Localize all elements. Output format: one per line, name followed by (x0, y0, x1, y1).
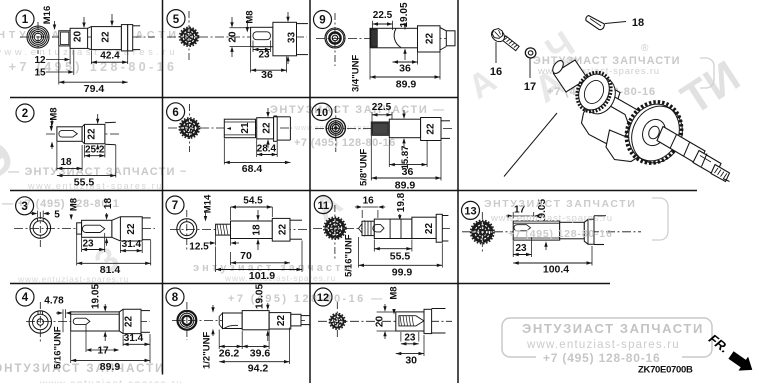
cell 6 circled number 6 (167, 103, 185, 121)
cell 7 shaft side view (216, 224, 231, 235)
svg-text:94.2: 94.2 (248, 363, 269, 375)
svg-text:ЭНТУЗИАСТ ЗАПЧАСТИ: ЭНТУЗИАСТ ЗАПЧАСТИ (0, 363, 165, 375)
svg-text:19.05: 19.05 (91, 284, 102, 309)
cell 8 dim 26.2 (218, 330, 220, 350)
cell 11 centerline (313, 227, 450, 229)
cell 3 dim 31.4 (119, 242, 121, 253)
cell 7 dim 54.5 (230, 207, 232, 220)
cell 1 dim 12 (69, 47, 71, 65)
cell 11 end view (splined dark) (325, 218, 346, 239)
cell 5 centerline (167, 36, 307, 38)
svg-text:16: 16 (490, 66, 502, 78)
cell 5 dim 20 (230, 27, 251, 29)
svg-text:26.2: 26.2 (219, 348, 240, 360)
grid horizontal line y=283.5 (10, 283, 610, 285)
cell 12 centerline (318, 320, 452, 322)
svg-text:3/4"UNF: 3/4"UNF (351, 55, 362, 92)
svg-text:www.entuziast-spares.ru: www.entuziast-spares.ru (224, 273, 336, 283)
svg-text:79.4: 79.4 (84, 83, 105, 95)
svg-text:12: 12 (317, 292, 329, 304)
cell 8 circled number 8 (166, 288, 184, 306)
cell 2 dim 25.2 (84, 145, 86, 158)
cell 7 dim 70 (230, 252, 232, 265)
cell 8 shaft side view (219, 313, 222, 329)
cell 9 dim 89.9 (369, 48, 371, 79)
svg-text:ЭНТУЗИАСТ ЗАПЧАСТИ: ЭНТУЗИАСТ ЗАПЧАСТИ (484, 198, 636, 210)
svg-text:5/16"UNF: 5/16"UNF (53, 326, 64, 369)
svg-text:22: 22 (126, 223, 137, 235)
cell 11 dim 16 (361, 210, 363, 218)
svg-text:99.9: 99.9 (392, 266, 413, 278)
cell 13 shaft side view (513, 221, 560, 240)
svg-text:28.4: 28.4 (257, 143, 277, 154)
cell 10 circled number 10 (312, 103, 332, 120)
svg-text:23: 23 (515, 243, 527, 254)
cell 1 circled number 1 (16, 10, 34, 28)
svg-text:®: ® (641, 43, 649, 54)
cell 11 shaft side view (359, 221, 365, 235)
svg-text:19.8: 19.8 (396, 192, 407, 212)
cell 11 dim 55.5 (373, 240, 375, 252)
cell 8 dim 94.2 (289, 328, 291, 365)
grid vertical line x=310 (309, 0, 311, 383)
grid vertical line x=458 (457, 0, 459, 383)
cell 4 centerline (26, 321, 150, 323)
svg-text:23: 23 (82, 238, 94, 249)
cell 12 dim 30 (423, 335, 425, 356)
cell 12 shaft side view (396, 312, 424, 331)
svg-text:www.entuziast-spares.ru: www.entuziast-spares.ru (27, 181, 163, 191)
cell 5 dim 36 (250, 48, 252, 73)
svg-text:1/2"UNF: 1/2"UNF (202, 332, 213, 369)
cell 4 dim 89.9 (70, 332, 72, 364)
cell 4 dim 17 (85, 325, 87, 353)
svg-text:22: 22 (101, 31, 112, 43)
cell 8 dim thread arrows (212, 305, 214, 311)
svg-text:+7 (495) 128-80-16: +7 (495) 128-80-16 (543, 351, 660, 365)
cell 13 dim 23 (512, 241, 514, 257)
crankshaft threaded tip hatch (715, 168, 718, 173)
svg-text:4.78: 4.78 (44, 296, 64, 307)
svg-text:81.4: 81.4 (100, 264, 121, 276)
cell 3 dim 5 (keyway width) (36, 211, 38, 217)
cell 7 dim 101.9 (215, 247, 217, 273)
cell 6 dim 68.4 (223, 139, 225, 165)
svg-text:9: 9 (319, 15, 325, 27)
cell 9 dim 22.5 (372, 21, 374, 30)
svg-text:15: 15 (34, 68, 46, 79)
cell 4 dim 31.4 (122, 335, 124, 346)
cell 13 centerline (462, 231, 641, 233)
cell 10 dim 89.9 (370, 136, 372, 181)
cell 8 end view (threaded dark) (178, 311, 197, 330)
crankshaft leader line (504, 113, 557, 177)
svg-text:ЭНТУЗИАСТ ЗАПЧАСТИ —: ЭНТУЗИАСТ ЗАПЧАСТИ — (270, 104, 446, 116)
cell 10 dim 22.5 (371, 112, 373, 123)
crankshaft 3d drawing (551, 59, 730, 182)
svg-text:25.2: 25.2 (85, 145, 105, 156)
svg-text:www.entuziast-spares.ru: www.entuziast-spares.ru (39, 379, 183, 383)
cell 1 dim 15 (73, 50, 75, 75)
svg-text:22.5: 22.5 (372, 102, 392, 113)
svg-text:22: 22 (124, 316, 135, 328)
svg-text:22: 22 (276, 315, 287, 327)
svg-text:7: 7 (172, 200, 178, 212)
svg-text:89.9: 89.9 (396, 79, 417, 91)
svg-text:M8: M8 (68, 198, 79, 211)
svg-text:M8: M8 (244, 10, 255, 23)
svg-text:M8: M8 (389, 286, 400, 299)
svg-text:22: 22 (261, 122, 272, 134)
svg-text:M16: M16 (42, 6, 53, 24)
part 16 leader and label (495, 42, 497, 63)
cell 3 end view (keyed bore) (30, 218, 51, 239)
svg-text:M8: M8 (48, 107, 59, 120)
cell 3 dim 81.4 (76, 235, 78, 266)
svg-text:89.9: 89.9 (395, 179, 416, 191)
svg-text:6: 6 (172, 107, 178, 119)
cell 1 centerline (20, 36, 155, 38)
cell 12 dim 20 (377, 311, 396, 313)
cell 1 shaft side view (59, 31, 70, 46)
svg-text:101.9: 101.9 (249, 270, 275, 282)
grid horizontal line y=97.5 (10, 97, 458, 99)
grid vertical line x=162.5 (162, 0, 164, 375)
svg-text:ZK70E0700B: ZK70E0700B (638, 365, 693, 376)
cell 2 centerline (46, 133, 120, 135)
svg-text:89.9: 89.9 (100, 361, 121, 373)
svg-text:8: 8 (172, 292, 179, 304)
cell 9 centerline (316, 37, 455, 39)
svg-text:68.4: 68.4 (242, 163, 263, 175)
svg-text:5: 5 (173, 14, 180, 26)
svg-text:36: 36 (399, 63, 411, 75)
part 17 leader and label (529, 58, 531, 78)
cell 4 circled number 4 (16, 288, 34, 306)
cell 12 end view (small splined) (330, 314, 344, 328)
cell 3 centerline (14, 228, 155, 230)
cell 11 dim 99.9 (358, 237, 360, 268)
cell 3 dim 23 (81, 238, 83, 252)
svg-text:+7 (495) 128-80-16: +7 (495) 128-80-16 (508, 228, 613, 240)
svg-text:12: 12 (34, 55, 46, 66)
svg-text:2: 2 (22, 108, 28, 120)
svg-text:22.5: 22.5 (373, 10, 393, 21)
cell 13 dim 100.4 (591, 246, 593, 266)
cell 11 circled number 11 (314, 196, 332, 214)
svg-text:100.4: 100.4 (543, 264, 569, 276)
cell 13 dim 17 (512, 212, 514, 219)
svg-text:www.entuziast-spares.ru: www.entuziast-spares.ru (526, 339, 680, 351)
FR arrow (728, 351, 752, 370)
cell 3 circled number 3 (16, 197, 34, 215)
svg-text:20: 20 (73, 31, 84, 43)
cell 1 dim 79.4 (58, 47, 60, 85)
svg-text:21: 21 (240, 122, 251, 134)
svg-text:30: 30 (405, 355, 417, 367)
svg-text:70: 70 (240, 250, 252, 262)
svg-text:16: 16 (363, 196, 375, 207)
svg-text:33: 33 (287, 32, 298, 44)
part 18 woodruff key (586, 16, 605, 30)
svg-text:www.entuziast-spares.ru: www.entuziast-spares.ru (490, 213, 613, 224)
cell 6 shaft side view (224, 119, 255, 138)
cell 5 shaft side view (251, 27, 273, 46)
svg-text:11: 11 (317, 200, 329, 212)
svg-text:17: 17 (524, 81, 536, 93)
svg-text:42.4: 42.4 (100, 50, 120, 61)
cell 2 dim M8 arrows (51, 118, 53, 125)
cell 5 circled number 5 (167, 10, 185, 28)
svg-text:55.5: 55.5 (74, 176, 95, 188)
cell 10 shaft side view (371, 122, 389, 135)
svg-text:22: 22 (424, 223, 435, 235)
svg-text:22: 22 (426, 123, 437, 135)
cell 10 dim 36 (388, 139, 390, 168)
part 17 washer (524, 46, 537, 59)
cell 4 shaft side view (71, 312, 120, 331)
cell 6 dim 28.4 (256, 140, 258, 158)
part 18 leader and label (605, 22, 626, 24)
cell 1 end view (threaded M16) (27, 26, 49, 48)
cell 2 circled number 2 (16, 104, 34, 122)
svg-text:5/8"UNF: 5/8"UNF (358, 149, 369, 186)
svg-text:54.5: 54.5 (243, 196, 263, 207)
svg-text:36: 36 (402, 166, 414, 178)
cell 6 end view (splined) (180, 119, 199, 138)
svg-text:ЭНТУЗИАСТ ЗАПЧАСТИ: ЭНТУЗИАСТ ЗАПЧАСТИ (522, 321, 704, 336)
cell 13 circled number 13 (462, 201, 480, 219)
svg-text:4: 4 (22, 292, 29, 304)
svg-text:39.6: 39.6 (250, 348, 271, 360)
cell 4 end view (keyed) (29, 311, 51, 333)
svg-text:20: 20 (375, 316, 386, 328)
svg-text:13: 13 (464, 206, 476, 218)
cell 9 shaft side view (370, 28, 418, 48)
svg-text:31.4: 31.4 (124, 333, 144, 344)
part 16 flange bolt (489, 27, 519, 51)
cell 7 circled number 7 (166, 196, 184, 214)
cell 6 centerline (168, 127, 292, 129)
cell 8 centerline (172, 320, 305, 322)
svg-text:22: 22 (278, 224, 289, 236)
svg-text:M14: M14 (202, 194, 213, 213)
watermark box bottom right (502, 318, 712, 357)
cell 2 dim 18 (56, 142, 58, 171)
cell 9 end view (threaded) (325, 28, 345, 48)
crankshaft center hole mark (700, 156, 711, 163)
cell 7 centerline (170, 229, 307, 231)
cell 12 dim 23 (400, 332, 402, 342)
svg-text:55.5: 55.5 (390, 250, 411, 262)
svg-text:31.4: 31.4 (122, 239, 142, 250)
crankshaft tip end face (723, 179, 730, 182)
svg-text:23: 23 (404, 333, 416, 344)
svg-text:— ЭНТУЗИАСТ ЗАПЧАСТИ ~: — ЭНТУЗИАСТ ЗАПЧАСТИ ~ (8, 166, 187, 178)
cell 1 dim 42.4 (90, 51, 92, 65)
svg-text:10: 10 (316, 107, 328, 119)
cell 9 dim 36 (417, 53, 419, 65)
svg-text:1: 1 (22, 14, 29, 26)
cell 7 end view (plain) (177, 219, 197, 239)
cell 12 circled number 12 (314, 288, 332, 306)
cell 10 centerline (315, 127, 452, 129)
svg-text:36: 36 (261, 69, 273, 81)
cell 13 end view (splined dark) (471, 221, 493, 243)
cell 3 shaft side view (77, 223, 82, 234)
svg-text:5/16"UNF: 5/16"UNF (344, 234, 355, 277)
cell 9 circled number 9 (314, 11, 332, 29)
cell 5 end view (splined) (180, 28, 198, 46)
svg-text:18: 18 (103, 198, 114, 210)
grid horizontal line y=190.5 (10, 190, 697, 192)
crankshaft shaft collar lines (670, 135, 677, 149)
svg-text:23: 23 (258, 49, 270, 60)
svg-text:+7 (495) 128-80-16 —: +7 (495) 128-80-16 — (228, 293, 385, 305)
svg-text:17: 17 (97, 345, 109, 356)
svg-text:18: 18 (60, 157, 72, 168)
svg-text:22: 22 (424, 33, 435, 45)
svg-text:19.05: 19.05 (255, 284, 266, 309)
cell 5 dim 23 (252, 41, 254, 53)
svg-text:18: 18 (632, 17, 644, 29)
svg-text:22: 22 (87, 128, 98, 140)
cell 2 shaft side view (57, 127, 82, 142)
cell 8 dim 39.6 (268, 331, 270, 350)
cell 10 end view (threaded dark) (326, 118, 345, 137)
svg-text:3: 3 (21, 201, 27, 213)
svg-text:18: 18 (252, 224, 263, 236)
svg-text:5: 5 (54, 209, 60, 220)
svg-text:20: 20 (228, 31, 239, 43)
cell 2 dim 55.5 (115, 145, 117, 178)
svg-text:— +7 (495) 128-80-16: — +7 (495) 128-80-16 (0, 60, 177, 74)
